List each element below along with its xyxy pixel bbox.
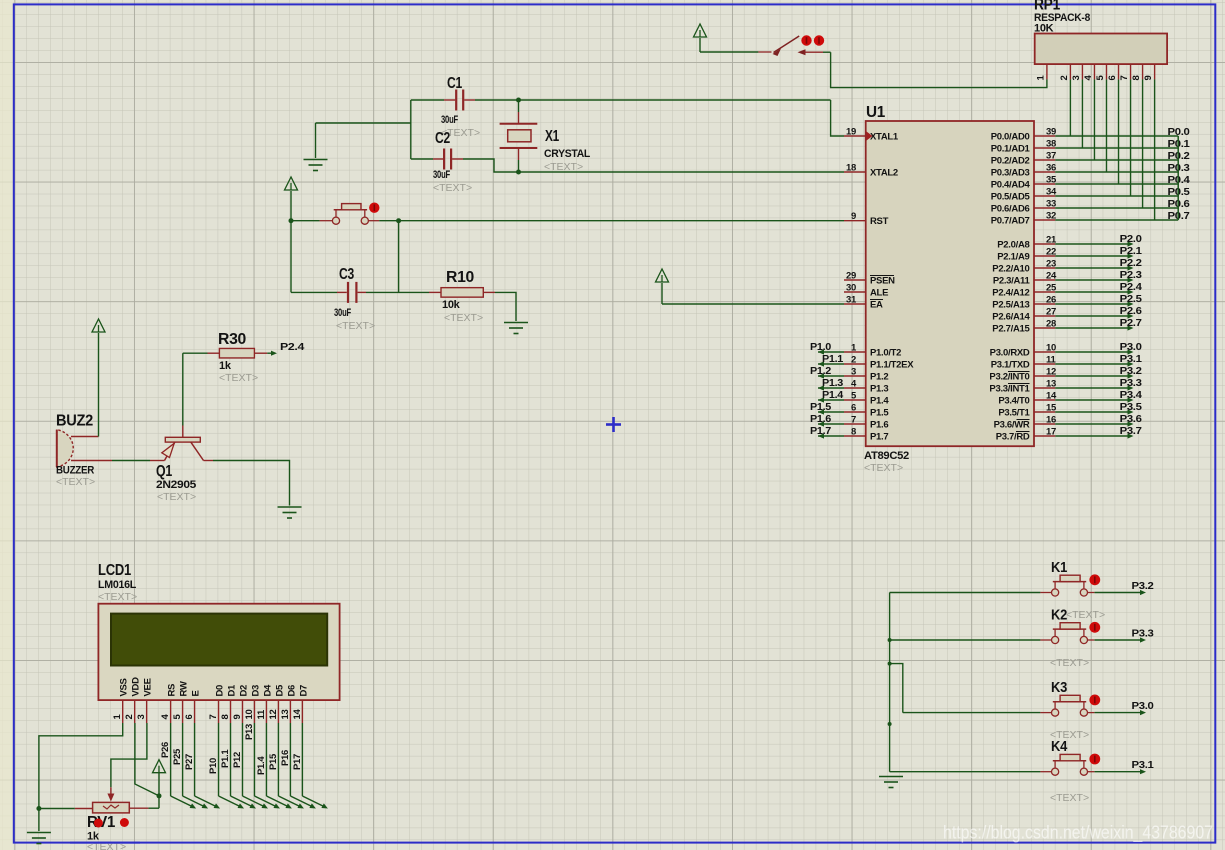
svg-text:P3.5: P3.5 — [1120, 401, 1142, 413]
svg-text:P3.5/T1: P3.5/T1 — [998, 408, 1030, 419]
svg-text:P12: P12 — [232, 752, 243, 768]
svg-text:P3.2: P3.2 — [1120, 365, 1142, 377]
svg-text:XTAL1: XTAL1 — [870, 132, 899, 143]
svg-text:BUZZER: BUZZER — [56, 465, 94, 477]
svg-text:P2.3: P2.3 — [1120, 269, 1142, 281]
svg-text:P3.0/RXD: P3.0/RXD — [990, 348, 1030, 359]
svg-text:31: 31 — [846, 295, 857, 306]
svg-text:P1.6: P1.6 — [870, 420, 888, 431]
svg-text:Q1: Q1 — [156, 463, 172, 480]
svg-text:PSEN: PSEN — [870, 276, 895, 287]
svg-text:VDD: VDD — [131, 677, 142, 697]
svg-text:C1: C1 — [447, 75, 462, 92]
svg-text:P3.3/INT1: P3.3/INT1 — [989, 384, 1030, 395]
svg-text:P3.4/T0: P3.4/T0 — [998, 396, 1029, 407]
svg-text:P1.4: P1.4 — [256, 756, 267, 775]
svg-text:P1.4: P1.4 — [822, 389, 843, 401]
svg-text:P16: P16 — [280, 750, 291, 766]
svg-text:P3.0: P3.0 — [1120, 341, 1142, 353]
svg-text:16: 16 — [1046, 415, 1056, 426]
svg-text:P1.4: P1.4 — [870, 396, 889, 407]
svg-text:P1.2: P1.2 — [870, 372, 888, 383]
svg-text:P0.6/AD6: P0.6/AD6 — [991, 204, 1030, 215]
svg-text:2: 2 — [124, 715, 135, 720]
svg-text:30uF: 30uF — [441, 114, 458, 126]
svg-text:P1.0: P1.0 — [810, 341, 831, 353]
svg-text:<TEXT>: <TEXT> — [219, 372, 258, 384]
svg-text:D4: D4 — [262, 684, 273, 697]
svg-text:17: 17 — [1046, 427, 1056, 438]
svg-text:1k: 1k — [219, 360, 232, 372]
svg-text:P3.6/WR: P3.6/WR — [994, 420, 1030, 431]
svg-text:P27: P27 — [184, 754, 195, 770]
svg-text:P3.1/TXD: P3.1/TXD — [991, 360, 1030, 371]
svg-text:11: 11 — [1046, 355, 1056, 366]
svg-text:8: 8 — [220, 715, 231, 720]
svg-text:10k: 10k — [442, 299, 461, 311]
svg-text:P1.6: P1.6 — [810, 413, 831, 425]
svg-text:36: 36 — [1046, 163, 1056, 174]
svg-text:28: 28 — [1046, 319, 1056, 330]
svg-text:P26: P26 — [160, 742, 171, 758]
svg-text:P1.3: P1.3 — [822, 377, 843, 389]
svg-text:EA: EA — [870, 300, 883, 311]
svg-text:P17: P17 — [292, 754, 303, 770]
svg-text:<TEXT>: <TEXT> — [1066, 609, 1105, 621]
svg-text:<TEXT>: <TEXT> — [544, 161, 583, 173]
svg-text:<TEXT>: <TEXT> — [336, 320, 375, 332]
svg-text:39: 39 — [1046, 127, 1056, 138]
svg-text:P2.4: P2.4 — [280, 341, 305, 353]
svg-text:13: 13 — [1046, 379, 1056, 390]
svg-text:P2.2: P2.2 — [1120, 257, 1142, 269]
svg-text:7: 7 — [208, 715, 219, 720]
svg-text:P1.3: P1.3 — [870, 384, 888, 395]
svg-text:P2.7/A15: P2.7/A15 — [992, 324, 1030, 335]
svg-text:P0.4/AD4: P0.4/AD4 — [991, 180, 1031, 191]
svg-text:P25: P25 — [172, 748, 183, 765]
svg-text:12: 12 — [268, 710, 279, 720]
svg-text:P0.5/AD5: P0.5/AD5 — [991, 192, 1031, 203]
svg-text:https://blog.csdn.net/weixin_4: https://blog.csdn.net/weixin_43786907 — [943, 823, 1213, 844]
svg-text:9: 9 — [232, 715, 243, 720]
svg-text:6: 6 — [184, 715, 195, 720]
svg-text:AT89C52: AT89C52 — [864, 450, 909, 462]
svg-text:P3.1: P3.1 — [1120, 353, 1142, 365]
svg-text:P0.3/AD3: P0.3/AD3 — [991, 168, 1030, 179]
svg-text:9: 9 — [1143, 76, 1154, 81]
svg-text:P2.0/A8: P2.0/A8 — [997, 240, 1029, 251]
svg-text:P1.1: P1.1 — [220, 749, 231, 768]
svg-text:P1.1/T2EX: P1.1/T2EX — [870, 360, 914, 371]
svg-text:ALE: ALE — [870, 288, 888, 299]
svg-text:P2.2/A10: P2.2/A10 — [992, 264, 1029, 275]
svg-text:19: 19 — [846, 127, 856, 138]
svg-text:3: 3 — [136, 715, 147, 720]
svg-text:D5: D5 — [274, 684, 285, 697]
svg-text:LCD1: LCD1 — [98, 562, 131, 579]
svg-text:P2.6/A14: P2.6/A14 — [992, 312, 1030, 323]
svg-text:<TEXT>: <TEXT> — [98, 591, 137, 603]
svg-text:P0.0/AD0: P0.0/AD0 — [991, 132, 1030, 143]
svg-text:6: 6 — [851, 403, 856, 414]
svg-text:P2.6: P2.6 — [1120, 305, 1142, 317]
svg-text:P1.2: P1.2 — [810, 365, 831, 377]
svg-text:29: 29 — [846, 271, 856, 282]
svg-text:7: 7 — [851, 415, 856, 426]
svg-text:D2: D2 — [239, 685, 250, 697]
svg-text:2: 2 — [851, 355, 856, 366]
svg-text:VSS: VSS — [119, 678, 130, 696]
svg-text:12: 12 — [1046, 367, 1056, 378]
svg-text:<TEXT>: <TEXT> — [1050, 729, 1089, 741]
svg-text:P2.3/A11: P2.3/A11 — [993, 276, 1031, 287]
svg-text:P3.0: P3.0 — [1132, 700, 1154, 712]
svg-text:18: 18 — [846, 163, 856, 174]
svg-text:30uF: 30uF — [334, 307, 351, 319]
svg-text:X1: X1 — [545, 128, 559, 145]
svg-text:33: 33 — [1046, 199, 1056, 210]
svg-text:D3: D3 — [250, 685, 261, 697]
svg-text:XTAL2: XTAL2 — [870, 168, 898, 179]
svg-text:P2.7: P2.7 — [1120, 317, 1142, 329]
svg-text:P2.0: P2.0 — [1120, 233, 1142, 245]
svg-text:P3.4: P3.4 — [1120, 389, 1142, 401]
svg-text:E: E — [191, 690, 202, 696]
svg-text:C3: C3 — [339, 266, 354, 283]
svg-text:D0: D0 — [215, 685, 226, 697]
svg-text:VEE: VEE — [143, 678, 154, 696]
svg-text:U1: U1 — [866, 104, 885, 121]
svg-text:37: 37 — [1046, 151, 1056, 162]
svg-text:RST: RST — [870, 216, 889, 227]
svg-text:D6: D6 — [286, 685, 297, 697]
svg-text:D1: D1 — [227, 684, 238, 697]
svg-text:P10: P10 — [208, 758, 219, 774]
svg-text:32: 32 — [1046, 211, 1056, 222]
svg-text:P2.5/A13: P2.5/A13 — [992, 300, 1029, 311]
svg-text:CRYSTAL: CRYSTAL — [544, 148, 591, 160]
svg-text:13: 13 — [280, 710, 291, 720]
svg-text:P3.7: P3.7 — [1120, 425, 1142, 437]
svg-text:9: 9 — [851, 211, 856, 222]
svg-text:P1.7: P1.7 — [870, 432, 888, 443]
svg-text:23: 23 — [1046, 259, 1056, 270]
svg-text:P3.3: P3.3 — [1132, 628, 1154, 640]
svg-text:P0.2/AD2: P0.2/AD2 — [991, 156, 1030, 167]
svg-text:10: 10 — [1046, 343, 1056, 354]
svg-text:<TEXT>: <TEXT> — [444, 312, 483, 324]
svg-text:<TEXT>: <TEXT> — [864, 462, 903, 474]
svg-text:<TEXT>: <TEXT> — [157, 491, 196, 503]
svg-text:P13: P13 — [244, 724, 255, 740]
svg-text:K1: K1 — [1051, 559, 1067, 576]
svg-text:K2: K2 — [1051, 607, 1067, 624]
svg-text:30uF: 30uF — [433, 169, 450, 181]
svg-text:RW: RW — [179, 681, 190, 696]
svg-text:R30: R30 — [218, 331, 246, 348]
svg-text:3: 3 — [851, 367, 856, 378]
svg-text:P3.1: P3.1 — [1132, 759, 1154, 771]
svg-text:P3.2/INT0: P3.2/INT0 — [989, 372, 1029, 383]
svg-text:P2.1: P2.1 — [1120, 245, 1142, 257]
svg-text:10K: 10K — [1034, 23, 1054, 35]
svg-text:26: 26 — [1046, 295, 1056, 306]
svg-text:2N2905: 2N2905 — [156, 479, 196, 491]
svg-text:22: 22 — [1046, 247, 1056, 258]
svg-text:LM016L: LM016L — [98, 579, 137, 591]
svg-text:P3.3: P3.3 — [1120, 377, 1142, 389]
svg-text:RS: RS — [167, 684, 178, 697]
svg-text:27: 27 — [1046, 307, 1056, 318]
svg-text:P3.6: P3.6 — [1120, 413, 1142, 425]
svg-text:P3.2: P3.2 — [1132, 580, 1154, 592]
svg-text:D7: D7 — [298, 685, 309, 697]
svg-text:P2.1/A9: P2.1/A9 — [997, 252, 1029, 263]
svg-text:P1.7: P1.7 — [810, 425, 831, 437]
svg-text:P2.4/A12: P2.4/A12 — [992, 288, 1029, 299]
svg-text:P2.4: P2.4 — [1120, 281, 1142, 293]
svg-text:38: 38 — [1046, 139, 1056, 150]
svg-text:10: 10 — [244, 710, 255, 720]
svg-text:<TEXT>: <TEXT> — [1050, 792, 1089, 804]
svg-text:P0.1/AD1: P0.1/AD1 — [991, 144, 1031, 155]
svg-text:C2: C2 — [435, 130, 450, 147]
svg-text:8: 8 — [851, 427, 856, 438]
svg-text:11: 11 — [256, 709, 267, 719]
svg-text:7: 7 — [1119, 76, 1130, 81]
svg-text:P1.5: P1.5 — [810, 401, 831, 413]
svg-text:2: 2 — [1059, 76, 1070, 81]
svg-text:P1.0/T2: P1.0/T2 — [870, 348, 901, 359]
svg-text:<TEXT>: <TEXT> — [56, 476, 95, 488]
svg-text:<TEXT>: <TEXT> — [1050, 657, 1089, 669]
svg-text:P1.5: P1.5 — [870, 408, 889, 419]
svg-text:K3: K3 — [1051, 679, 1067, 696]
svg-text:3: 3 — [1071, 76, 1082, 81]
svg-text:8: 8 — [1131, 76, 1142, 81]
svg-text:<TEXT>: <TEXT> — [433, 182, 472, 194]
svg-text:6: 6 — [1107, 76, 1118, 81]
svg-text:P3.7/RD: P3.7/RD — [996, 432, 1030, 443]
svg-text:BUZ2: BUZ2 — [56, 413, 93, 430]
svg-text:P2.5: P2.5 — [1120, 293, 1142, 305]
svg-text:P15: P15 — [268, 753, 279, 770]
svg-text:30: 30 — [846, 283, 856, 294]
svg-text:P0.7/AD7: P0.7/AD7 — [991, 216, 1030, 227]
svg-text:P1.1: P1.1 — [822, 353, 843, 365]
svg-text:R10: R10 — [446, 269, 474, 286]
svg-text:14: 14 — [292, 709, 303, 720]
